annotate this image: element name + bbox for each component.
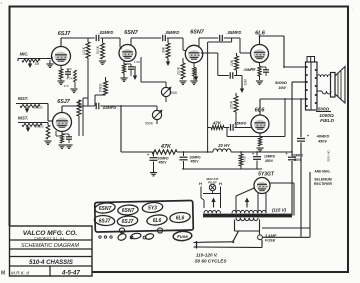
svg-text:1MEG: 1MEG [34, 125, 44, 129]
svg-text:RECTIFIER: RECTIFIER [314, 182, 332, 186]
svg-text:100K: 100K [82, 46, 86, 55]
svg-text:510-4 CHASSIS: 510-4 CHASSIS [29, 260, 73, 266]
svg-text:10MFD: 10MFD [264, 155, 276, 159]
svg-text:4.5K: 4.5K [243, 156, 247, 162]
svg-text:470: 470 [63, 84, 68, 88]
svg-text:MIC.: MIC. [20, 52, 29, 57]
svg-text:6SJ7: 6SJ7 [58, 31, 72, 37]
svg-text:450V: 450V [317, 140, 327, 144]
svg-text:6SN7: 6SN7 [122, 208, 135, 214]
svg-text:250K: 250K [230, 100, 234, 109]
svg-text:47K: 47K [160, 144, 172, 150]
svg-text:500Ω: 500Ω [318, 107, 330, 112]
svg-text:SER. NO: SER. NO [327, 149, 331, 161]
svg-text:6.8K: 6.8K [244, 78, 248, 85]
svg-text:.05MFD: .05MFD [227, 30, 242, 35]
svg-text:22K: 22K [230, 59, 234, 66]
svg-text:5Y3: 5Y3 [148, 205, 157, 211]
svg-text:220K: 220K [177, 66, 181, 75]
svg-text:H: H [219, 181, 222, 186]
svg-text:450V: 450V [159, 161, 168, 165]
svg-text:450V: 450V [191, 160, 200, 164]
svg-text:500K: 500K [145, 122, 154, 126]
svg-text:500K: 500K [170, 91, 179, 95]
svg-text:PILOT: PILOT [208, 180, 217, 184]
svg-text:(115 V): (115 V) [272, 208, 287, 213]
svg-text:20MFD: 20MFD [292, 154, 304, 158]
svg-text:47K: 47K [212, 121, 222, 126]
svg-text:FIELD: FIELD [320, 118, 334, 124]
svg-text:6SJ7: 6SJ7 [122, 219, 134, 225]
svg-text:.02MFD: .02MFD [102, 105, 116, 110]
svg-text:5Y3GT: 5Y3GT [258, 172, 275, 178]
svg-text:4-5-47: 4-5-47 [61, 270, 80, 277]
svg-text:AND MAG.: AND MAG. [314, 170, 330, 174]
svg-text:.05MFD: .05MFD [165, 30, 180, 35]
svg-text:M: M [1, 271, 5, 277]
svg-text:.02MFD: .02MFD [99, 30, 114, 35]
svg-text:·: · [1, 1, 3, 7]
svg-text:INST.: INST. [18, 96, 28, 101]
svg-text:250: 250 [66, 67, 71, 71]
svg-text:1M: 1M [35, 62, 40, 66]
svg-text:4.7K: 4.7K [66, 77, 72, 81]
svg-text:450V: 450V [293, 158, 302, 162]
svg-text:2MEG: 2MEG [99, 83, 103, 93]
svg-text:1.5K: 1.5K [134, 60, 140, 64]
svg-text:H: H [199, 181, 202, 186]
svg-text:M.R.K. d: M.R.K. d [11, 271, 29, 276]
svg-text:6SJ7: 6SJ7 [99, 218, 111, 224]
svg-text:6SN7: 6SN7 [99, 206, 112, 212]
svg-text:FUSE: FUSE [265, 239, 276, 243]
svg-text:39K: 39K [162, 46, 166, 53]
svg-text:INST.: INST. [18, 116, 28, 121]
svg-text:6SJ7: 6SJ7 [57, 99, 71, 105]
svg-text:CHICAGO, ILL, ILL.: CHICAGO, ILL, ILL. [34, 237, 66, 241]
svg-text:10W: 10W [278, 86, 286, 90]
svg-text:6SN7: 6SN7 [124, 30, 138, 36]
svg-text:6SN7: 6SN7 [190, 30, 204, 36]
svg-text:500K: 500K [96, 45, 100, 54]
svg-text:6L6: 6L6 [153, 218, 162, 224]
svg-text:SCHEMATIC DIAGRAM: SCHEMATIC DIAGRAM [21, 243, 80, 249]
svg-text:250: 250 [250, 67, 255, 71]
svg-text:1MEG: 1MEG [33, 106, 43, 110]
svg-text:50 60 CYCLES: 50 60 CYCLES [195, 259, 227, 264]
svg-text:Fuse: Fuse [177, 234, 188, 239]
svg-text:.05MFD: .05MFD [234, 121, 247, 125]
svg-text:20 HY: 20 HY [217, 143, 231, 148]
svg-text:40MFD: 40MFD [316, 135, 330, 139]
svg-text:5000Ω: 5000Ω [275, 80, 288, 85]
svg-text:6L6: 6L6 [176, 215, 185, 221]
svg-text:110-120 V.: 110-120 V. [196, 253, 218, 258]
svg-text:SELENIUM: SELENIUM [314, 178, 332, 182]
svg-text:450V: 450V [265, 159, 274, 163]
